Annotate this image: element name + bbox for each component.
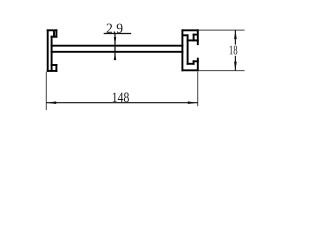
148 right arrow xyxy=(188,101,197,104)
right wall bottom xyxy=(197,59,199,71)
arrow down to web top xyxy=(114,37,117,45)
right top inner line xyxy=(182,34,187,36)
right top hook bottom xyxy=(188,39,198,41)
label 2.9 xyxy=(107,24,123,33)
right bottom hook right bar xyxy=(193,61,195,64)
left channel spine outer xyxy=(47,30,49,71)
18 extension line top xyxy=(198,29,244,31)
left spine inner xyxy=(51,37,53,71)
arrow up to web bottom xyxy=(114,53,117,61)
web bottom line xyxy=(52,51,183,53)
18 extension line bottom xyxy=(198,70,244,72)
left top lip outer xyxy=(55,30,57,36)
label 18 white backing xyxy=(228,45,239,56)
right inner wall xyxy=(187,35,189,64)
right bottom hook top xyxy=(194,60,198,62)
right bottom hook bottom xyxy=(188,63,194,65)
dimension 2.9 leader xyxy=(104,34,132,60)
label 148 xyxy=(113,93,129,103)
148 dimension line xyxy=(46,102,197,104)
18 top arrow xyxy=(234,30,237,39)
right top hook right bar xyxy=(193,35,195,41)
left top lip bottom xyxy=(52,36,57,38)
right channel spine xyxy=(181,30,183,70)
left channel top edge xyxy=(48,29,57,31)
web top line xyxy=(52,45,183,47)
18 dimension line xyxy=(234,30,236,71)
left top lip inner xyxy=(53,31,55,37)
18 bottom arrow xyxy=(234,62,237,71)
label 18 xyxy=(230,46,238,55)
left channel bottom edge xyxy=(48,70,57,72)
148 left arrow xyxy=(47,101,56,104)
left bottom lip outer xyxy=(55,65,57,71)
left bottom lip top xyxy=(52,64,57,66)
148 extension line right xyxy=(197,72,199,106)
right wall top xyxy=(197,30,199,44)
right channel bottom edge xyxy=(182,69,197,71)
right top hook stub xyxy=(194,34,197,36)
right channel top edge xyxy=(182,29,197,31)
148 extension line left xyxy=(45,72,47,110)
